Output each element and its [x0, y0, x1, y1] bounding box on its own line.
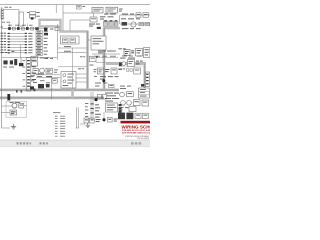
label top-left [5, 6, 12, 9]
wire rows mid center [58, 47, 87, 49]
wire vertical x56 from frame [55, 5, 57, 13]
labels near relay row [44, 57, 53, 60]
controller U2 box [92, 8, 103, 14]
wire stubs right of CN2 [32, 60, 36, 80]
relay/fuse cluster left middle [2, 58, 57, 68]
tie dashes on twin verticals [90, 103, 93, 113]
sensor S1 small box [90, 17, 97, 22]
bottom-center component row [84, 117, 118, 123]
small boxes right of gauge [139, 22, 143, 25]
relay box mid-left row2 [33, 69, 58, 75]
lamp circle L1 [40, 68, 45, 73]
wire vertical x57 [57, 24, 59, 60]
node dot lower [103, 118, 106, 121]
label right of module U3 [119, 9, 123, 12]
left connector pin rows [7, 33, 27, 50]
small switch box mid-low [52, 79, 57, 84]
dark block lower-left-middle [33, 82, 49, 88]
wire: main vertical highlighted bus B [103, 28, 106, 92]
wire color code legend [53, 112, 65, 136]
labels left of bus A [78, 56, 85, 69]
box row center-left [32, 62, 53, 73]
viewer status bar [0, 140, 150, 147]
labels right of key box [107, 50, 116, 53]
wire: highlighted gray loop near top-left [40, 20, 61, 27]
status bar icon group left [17, 142, 32, 144]
fuse block F1 boxes [30, 12, 36, 20]
wire rows center-left lower [36, 73, 60, 77]
wire stub at y66.5 [58, 66, 87, 68]
small boxes above node [98, 94, 107, 99]
wire stub vertical [119, 15, 121, 24]
labels above that wire [98, 51, 114, 54]
sensor box left of bus mid [90, 56, 97, 62]
wire from U2 down to sensor S1 [93, 13, 95, 17]
wire vertical from J1 run [18, 10, 20, 27]
boxes right of pair [133, 100, 148, 106]
svg-text:5600 SN BLMR 516811001 & ABOVE: 5600 SN BLMR 516811001 & ABOVE [122, 131, 150, 134]
status bar marks right [131, 142, 141, 144]
labels left of twin verticals [85, 103, 88, 117]
bottom text row [122, 27, 129, 30]
solenoid circles pair [121, 101, 126, 106]
wire: lower highlighted bus upper [0, 89, 119, 92]
vertical wire x104 lower [103, 112, 105, 122]
contact block [122, 22, 127, 26]
small box mid [129, 107, 136, 112]
ground symbol bottom-left [11, 124, 16, 129]
extra labels center-left rows [31, 75, 50, 83]
title block red bar [121, 121, 151, 124]
starter cluster right [119, 48, 150, 59]
module U3 box [106, 7, 118, 13]
wire vertical long center [72, 48, 74, 89]
wire row 1 [120, 14, 150, 16]
wire from J1 [4, 9, 19, 11]
switch cluster row [8, 23, 39, 30]
right side components on highlighted run [119, 60, 143, 75]
pin number labels left of CN2 [23, 60, 26, 87]
wire row under key box [92, 53, 120, 55]
top frame border of schematic sheet [0, 4, 150, 6]
connector on right edge [141, 72, 150, 87]
text row y76.5 [30, 75, 51, 78]
svg-text:WIRING SCHE: WIRING SCHE [122, 124, 151, 129]
wire from bus to key box [88, 39, 91, 41]
tick marks on upper bus [16, 90, 18, 93]
key switch box right of bus [91, 36, 106, 50]
wire labels column mid [28, 33, 32, 51]
wire to ground bottom-left [2, 127, 10, 129]
dark dash under key box [94, 56, 98, 58]
box next to SL1 [127, 92, 134, 97]
text rows between buses lower [95, 83, 114, 88]
wire: elbow joining the two lower buses [71, 89, 74, 98]
box with label lower [10, 110, 17, 115]
wire: main vertical highlighted bus A [86, 31, 89, 92]
junction node dot [94, 98, 97, 101]
component row R1 on lower wire [2, 28, 48, 30]
wire: highlighted horizontal run right side [106, 63, 146, 65]
junction node on bus B [102, 79, 105, 82]
wire: lower highlighted bus lower [0, 96, 104, 99]
control box center-bottom-right [106, 103, 118, 112]
labels right of TB1 [44, 31, 48, 54]
relay on lower bus left [7, 94, 10, 100]
pin contacts at x25 [25, 33, 27, 51]
text cluster near bus top [89, 24, 100, 27]
wire from key box down [99, 50, 101, 54]
labels above right bus [122, 55, 142, 58]
wire vertical x70 [69, 20, 71, 31]
tick on lower bus [33, 89, 35, 92]
text row 2 [121, 17, 126, 20]
right top harness rows [120, 13, 151, 29]
instrument box center [61, 72, 76, 89]
fuse board text rows top-right [100, 14, 116, 20]
labels left of right-edge connector [120, 86, 131, 89]
wire: highlighted run from loop to main vertical bus [61, 27, 88, 32]
labels on wires [64, 46, 71, 52]
enclosure outline motor cluster [6, 102, 27, 118]
text rows [119, 107, 129, 110]
text row y76-79 between buses [100, 76, 119, 79]
text rows under node [95, 104, 101, 117]
right bottom relay box [139, 88, 150, 98]
dark component cluster above title block [118, 113, 148, 120]
extra labels right of bus A [90, 65, 98, 77]
dark contact marks right of control box [119, 104, 122, 113]
wire: highlighted vertical at right [143, 63, 145, 88]
terminal strip TB1 column [36, 31, 42, 56]
wire vertical x20 lower [20, 45, 22, 58]
second wire row with labels [92, 56, 118, 58]
ecu box with two contacts [61, 36, 80, 44]
relay K1 box top-left [19, 12, 24, 26]
tiny labels above component row [1, 22, 33, 28]
tall connector CN2 with pins [26, 58, 34, 92]
gauge circle G1 [131, 22, 136, 27]
twin vertical wires from bus x91 [91, 92, 93, 120]
contact black near TB1 [44, 33, 48, 35]
extra marks right of diode block [50, 28, 59, 31]
fuse caps [104, 20, 117, 21]
pin contacts at x8 [8, 33, 10, 51]
relay K2 small boxes [136, 13, 141, 17]
dark dash left of fuse row [97, 27, 101, 29]
motor M1 circle [12, 103, 17, 108]
ground symbol bottom-center [86, 123, 90, 128]
wire to bottom-center ground [80, 123, 85, 125]
switch box row upper-mid-left [31, 56, 49, 60]
wire vertical crossing lower buses [51, 76, 53, 100]
text rows right of node [105, 93, 119, 102]
labels inside motor enclosure [10, 101, 21, 104]
wires from instrument box to bus [76, 74, 87, 82]
vertical twin-wire drop center-bottom [75, 108, 79, 129]
box right of motor [19, 103, 24, 108]
pin labels column left [1, 33, 7, 51]
wire horizontal to controller [63, 12, 92, 14]
fuse row boxes shaded top-right [104, 21, 118, 26]
label texts near F1 [27, 12, 40, 16]
wire vertical center-top [62, 5, 64, 31]
component row between buses y68-74 [98, 68, 122, 74]
wires in motor cluster [2, 106, 27, 113]
wire horizontal mid top [70, 19, 90, 21]
wire: highlighted feed at top right [104, 27, 121, 29]
wire row 3 [120, 23, 150, 25]
connector J1 top-left [1, 9, 4, 19]
diode D1 block [44, 28, 47, 32]
dark contact block second [46, 84, 50, 87]
status bar icon group middle [40, 142, 48, 144]
solenoid circle SL1 [120, 92, 125, 97]
left frame wire [1, 7, 3, 128]
pin row 8 [1, 51, 33, 54]
small relay above frame area [77, 5, 86, 9]
